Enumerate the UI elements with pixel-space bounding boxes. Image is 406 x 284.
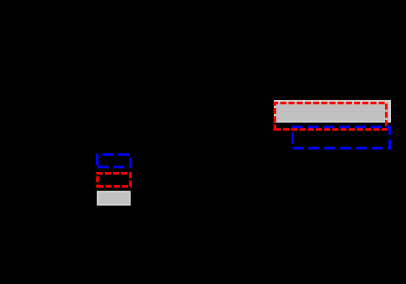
red dashed anchor box (left group) — [98, 173, 131, 186]
blue dashed anchor box (right group) — [293, 127, 390, 148]
red dashed anchor box (right group) — [275, 103, 386, 129]
blue dashed anchor box (left group) — [97, 155, 130, 168]
gray ground-truth box (left group) — [98, 192, 130, 205]
gray ground-truth box (right group) — [275, 101, 391, 122]
